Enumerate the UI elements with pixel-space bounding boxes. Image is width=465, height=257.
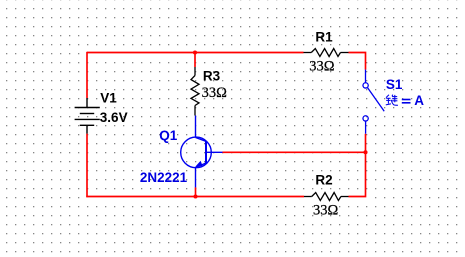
S1 key label equals sign [402,100,411,103]
resistor R2 symbol (horizontal, bottom right) [304,193,349,201]
wire Q1 base to right vertical [222,151,365,153]
node junction dot bottom (emitter / bottom rail) [193,194,197,198]
node junction dot right (base / switch / R2) [363,150,367,154]
svg-text:R3: R3 [203,68,221,83]
Q1 base pin [206,151,223,153]
svg-text:33Ω: 33Ω [313,203,339,219]
svg-text:Q1: Q1 [159,128,178,143]
Q1 emitter arrowhead [195,161,202,167]
S1 blade [368,88,385,112]
wire left vertical battery top [86,52,88,98]
switch S1 [363,70,384,134]
S1 bottom terminal circle [363,116,368,121]
svg-text:R2: R2 [315,173,332,188]
resistor R3 symbol (vertical) [191,67,199,116]
Q1 collector pin from R3 [195,116,197,138]
resistor R1 symbol (horizontal, top right) [304,49,349,57]
S1 top terminal circle [363,83,368,88]
svg-text:3.6V: 3.6V [100,110,128,125]
Q1 emitter inner diagonal [196,163,206,167]
wire bottom rail battery to R2 left pin [86,196,304,198]
Q1 emitter pin [195,168,197,188]
battery V1 symbol [75,98,100,134]
svg-text:R1: R1 [315,30,333,45]
Q1 collector inner diagonal [196,138,207,142]
svg-text:A: A [414,93,424,108]
wire R1 right pin to switch S1 top pin [349,53,366,70]
node junction dot top (R3 / top rail) [193,50,197,54]
S1 key label: jian = A [386,95,398,106]
svg-text:33Ω: 33Ω [202,85,228,101]
wire left vertical battery bottom [86,134,88,198]
S1 bottom pin [365,121,367,134]
svg-text:2N2221: 2N2221 [140,170,188,185]
S1 top pin [365,70,367,83]
svg-text:S1: S1 [386,77,403,92]
svg-text:V1: V1 [100,91,117,106]
wire R2 right pin up to junction with S1 and Q1 base [349,134,366,197]
wire Q1 emitter to bottom rail [195,187,197,196]
Q1 base bar [205,141,207,163]
wire top rail from battery V1 plus to R1 left pin [87,52,304,54]
svg-text:33Ω: 33Ω [309,58,335,74]
wire R3 top lead from junction [194,53,196,68]
Q1 body circle [181,137,212,168]
transistor Q1 2N2221 [181,116,223,188]
